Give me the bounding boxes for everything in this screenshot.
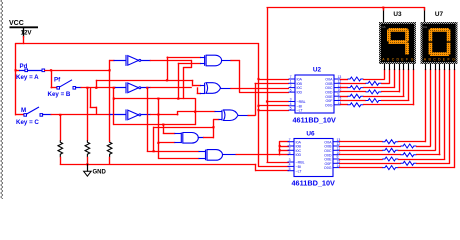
svg-text:~LT: ~LT: [296, 169, 303, 173]
svg-text:CA: CA: [382, 25, 386, 29]
svg-text:GND: GND: [93, 170, 107, 176]
svg-text:U6: U6: [306, 131, 315, 138]
svg-text:3: 3: [289, 158, 291, 162]
svg-text:6: 6: [290, 88, 292, 92]
svg-text:G: G: [452, 57, 455, 61]
svg-text:U7: U7: [435, 11, 444, 18]
svg-text:Pf: Pf: [54, 77, 61, 84]
svg-text:U2: U2: [313, 67, 322, 74]
svg-text:O0G: O0G: [325, 103, 333, 107]
svg-text:Pd: Pd: [20, 63, 28, 70]
svg-text:Key = A: Key = A: [16, 74, 39, 81]
svg-text:2: 2: [290, 84, 292, 88]
svg-text:I0C: I0C: [297, 86, 303, 90]
svg-text:CA: CA: [423, 25, 427, 29]
svg-text:O0G: O0G: [324, 166, 332, 170]
svg-text:~RBL: ~RBL: [296, 161, 305, 165]
svg-text:4611BD_10V: 4611BD_10V: [293, 116, 337, 125]
svg-text:~LT: ~LT: [297, 109, 304, 113]
svg-text:F: F: [406, 57, 408, 61]
svg-text:I0D: I0D: [297, 91, 303, 95]
svg-text:6: 6: [289, 151, 291, 155]
svg-text:M: M: [21, 107, 26, 114]
svg-text:VCC: VCC: [9, 20, 24, 27]
svg-text:5: 5: [290, 106, 292, 110]
svg-text:Key = C: Key = C: [16, 119, 39, 126]
svg-text:5: 5: [289, 167, 291, 171]
svg-text:I0D: I0D: [296, 153, 302, 157]
svg-text:12V: 12V: [21, 30, 33, 37]
svg-text:O0C: O0C: [324, 149, 332, 153]
svg-text:Key = B: Key = B: [48, 91, 71, 98]
svg-text:F: F: [447, 57, 449, 61]
svg-text:U3: U3: [393, 11, 402, 18]
svg-text:4611BD_10V: 4611BD_10V: [292, 179, 336, 188]
svg-text:G: G: [411, 57, 414, 61]
